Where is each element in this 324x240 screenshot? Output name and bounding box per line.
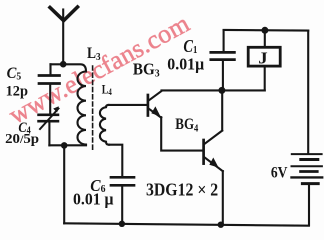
svg-text:6V: 6V — [271, 163, 288, 182]
svg-text:0.01 μ: 0.01 μ — [73, 189, 114, 208]
svg-text:12p: 12p — [6, 83, 28, 99]
svg-text:0.01μ: 0.01μ — [167, 54, 204, 73]
svg-text:20/5p: 20/5p — [5, 132, 39, 147]
svg-text:J: J — [258, 48, 268, 67]
svg-text:3DG12 × 2: 3DG12 × 2 — [146, 180, 218, 200]
